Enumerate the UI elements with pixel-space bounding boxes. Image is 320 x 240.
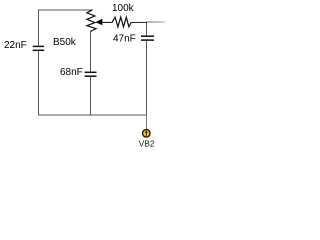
capacitor 68nF [85,71,97,73]
potentiometer body B50k [87,10,96,32]
potentiometer wiper arrow [95,19,102,26]
svg-text:VB2: VB2 [139,138,155,148]
capacitor 47nF [141,35,154,37]
wire wiper to resistor [102,21,113,23]
wire middle rail upper [90,31,92,71]
svg-text:47nF: 47nF [113,34,136,45]
wire to terminal VB2 [145,115,147,129]
wire to right edge [147,21,165,23]
svg-text:68nF: 68nF [60,67,83,78]
svg-text:100k: 100k [112,3,135,14]
capacitor 22nF [33,45,45,47]
wire middle rail lower [90,77,92,115]
wire bottom rail [38,114,147,116]
resistor 100k [112,17,131,27]
wire top rail [38,9,93,11]
svg-text:B50k: B50k [53,37,77,48]
wire left rail upper [37,10,39,46]
wire right rail lower [146,41,148,115]
wire left rail lower [37,51,39,116]
svg-text:22nF: 22nF [4,40,27,51]
wire resistor right lead [131,21,147,23]
wire right rail upper [146,22,148,36]
terminal VB2 [143,130,151,138]
